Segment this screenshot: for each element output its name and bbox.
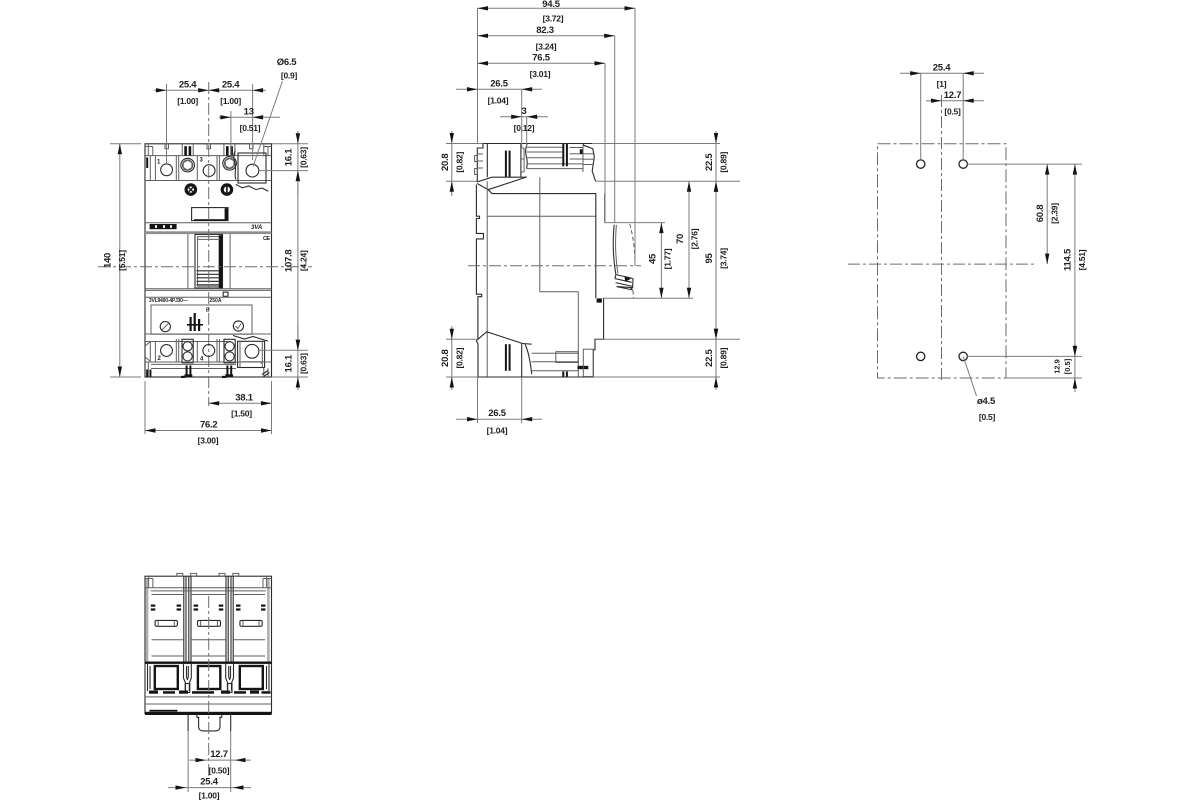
front view top cap band <box>145 144 272 156</box>
bottom view top tabs <box>177 573 239 576</box>
side view centerline <box>468 265 641 267</box>
dim 25.4 [1.00] left span <box>154 80 222 164</box>
small square indicator <box>223 292 228 296</box>
bottom view centerline <box>208 596 210 776</box>
svg-text:25.4: 25.4 <box>200 777 218 788</box>
svg-text:[0.82]: [0.82] <box>455 152 465 173</box>
svg-text:76.5: 76.5 <box>532 53 550 64</box>
terminal hole 3 <box>203 165 215 177</box>
mounting hole top right <box>959 160 967 168</box>
svg-text:45: 45 <box>648 253 659 264</box>
svg-text:114.5: 114.5 <box>1063 248 1074 271</box>
dim 26.5 [1.04] top <box>456 79 542 149</box>
handle frame <box>188 234 230 289</box>
svg-text:12.7: 12.7 <box>944 90 962 101</box>
lower terminal hole 2 <box>161 345 173 357</box>
svg-text:[0.63]: [0.63] <box>299 353 309 374</box>
lower clamp module left <box>182 339 193 363</box>
pole module field lines <box>151 591 266 656</box>
label band with logo and 3VA <box>145 223 272 231</box>
svg-text:12.7: 12.7 <box>210 749 228 760</box>
svg-text:60.8: 60.8 <box>1035 205 1046 223</box>
svg-text:38.1: 38.1 <box>235 393 253 404</box>
lines below handle <box>145 289 272 291</box>
toggle travel dashed arc <box>630 224 635 298</box>
cover screw left (slotted) <box>185 183 198 196</box>
right extension lines <box>258 144 308 377</box>
dim 107.8 [4.24] right <box>284 171 309 351</box>
lower terminal hole 4 <box>203 345 215 357</box>
drilling plan outline (phantom) <box>878 144 1007 378</box>
svg-text:20.8: 20.8 <box>440 154 451 172</box>
svg-text:[1]: [1] <box>937 79 947 89</box>
type text row <box>149 298 222 304</box>
svg-text:[4.51]: [4.51] <box>1077 249 1087 270</box>
svg-text:[4.24]: [4.24] <box>299 250 309 271</box>
svg-text:[1.04]: [1.04] <box>487 426 508 436</box>
broken-out terminal 5 with tear outline <box>234 151 268 192</box>
svg-text:CE: CE <box>263 236 270 242</box>
svg-text:[0.12]: [0.12] <box>514 123 535 133</box>
toggle handle side profile <box>613 225 633 290</box>
svg-text:12.9: 12.9 <box>1053 359 1062 374</box>
dim 20.8 [0.82] bottom left <box>440 326 465 390</box>
svg-text:[0.51]: [0.51] <box>240 123 261 133</box>
svg-text:94.5: 94.5 <box>542 0 560 10</box>
clip marks <box>151 605 266 611</box>
svg-text:[0.50]: [0.50] <box>209 766 230 776</box>
side view top cap block <box>487 144 525 178</box>
lower terminal row <box>145 334 272 362</box>
svg-text:107.8: 107.8 <box>284 250 295 273</box>
rating plate <box>151 305 252 334</box>
pole barrier lines left <box>184 576 191 661</box>
svg-text:25.4: 25.4 <box>933 62 951 73</box>
dim 70 [2.76] <box>675 181 700 298</box>
svg-text:140: 140 <box>103 253 114 268</box>
svg-text:[0.63]: [0.63] <box>299 147 309 168</box>
svg-text:22.5: 22.5 <box>704 348 715 366</box>
front view top terminal row <box>145 156 272 181</box>
svg-text:26.5: 26.5 <box>488 408 506 419</box>
svg-text:3: 3 <box>200 158 204 164</box>
dim 26.5 [1.04] bottom <box>456 377 542 436</box>
svg-text:[1.00]: [1.00] <box>220 96 241 106</box>
dim 76.5 [3.01] <box>478 53 606 223</box>
svg-text:[3.01]: [3.01] <box>530 69 551 79</box>
svg-text:[0.5]: [0.5] <box>1063 358 1072 374</box>
svg-text:ø4.5: ø4.5 <box>977 396 996 407</box>
terminal screw 4 (hex head) <box>223 157 237 171</box>
dim 38.1 [1.50] <box>209 381 272 434</box>
svg-text:70: 70 <box>675 234 686 244</box>
lower clamp module right <box>224 339 235 363</box>
side view main body lines <box>487 177 604 377</box>
label diameter 4.5 [0.5] with leader <box>963 356 996 422</box>
svg-text:25.4: 25.4 <box>222 80 240 91</box>
svg-text:[1.50]: [1.50] <box>231 409 252 419</box>
svg-text:[3.72]: [3.72] <box>543 14 564 24</box>
svg-text:76.2: 76.2 <box>200 420 218 431</box>
svg-text:22.5: 22.5 <box>704 153 715 171</box>
dim 12.9 [0.5] <box>1053 344 1078 392</box>
terminal zone <box>145 662 272 694</box>
base plate lines <box>145 697 272 715</box>
svg-text:[0.5]: [0.5] <box>979 412 996 422</box>
side view bottom edge with extensions <box>446 376 720 378</box>
side view top-left vee joint <box>477 177 527 194</box>
svg-text:95: 95 <box>704 253 715 264</box>
dim 25.4 [1.00] bottom view <box>168 777 251 800</box>
bottom cap band <box>145 362 272 378</box>
front centerline vertical <box>208 82 210 406</box>
svg-text:2: 2 <box>158 356 162 362</box>
svg-text:[1.04]: [1.04] <box>488 96 509 106</box>
dim 76.2 [3.00] <box>145 381 272 446</box>
mounting tab <box>188 715 231 731</box>
svg-text:16.1: 16.1 <box>284 354 295 372</box>
side view back profile <box>475 144 484 378</box>
svg-text:82.3: 82.3 <box>536 25 554 36</box>
bottom view outline <box>145 576 272 713</box>
svg-text:[0.5]: [0.5] <box>944 107 961 117</box>
dim 20.8 [0.82] top left <box>440 131 465 196</box>
svg-text:[1.00]: [1.00] <box>177 96 198 106</box>
svg-text:[0.82]: [0.82] <box>455 347 465 368</box>
svg-text:[3.74]: [3.74] <box>719 248 729 269</box>
dim 45 [1.77] <box>648 223 673 299</box>
drilling plan centerline vertical <box>941 95 943 381</box>
side view bottom cap block <box>478 332 593 377</box>
bottom view top band <box>145 576 272 588</box>
hole row extension lines <box>967 164 1082 378</box>
dim 25.4 [1] plan <box>900 62 984 159</box>
dim 13 [0.51] <box>219 107 280 159</box>
svg-text:[2.76]: [2.76] <box>690 228 700 249</box>
right extension lines side view <box>594 181 740 339</box>
svg-text:13: 13 <box>244 107 254 118</box>
dim 94.5 [3.72] <box>478 0 636 266</box>
cover screw right (slotted) <box>221 183 234 196</box>
mounting hole bottom left <box>917 352 925 360</box>
dim 16.1 [0.63] bottom right <box>284 325 309 390</box>
bottom view extension lines <box>188 731 231 792</box>
drilling plan centerline horizontal <box>848 263 1035 265</box>
broken-out lower terminal 6 <box>233 336 268 368</box>
svg-text:[3.24]: [3.24] <box>536 42 557 52</box>
svg-text:26.5: 26.5 <box>490 79 508 90</box>
dim 114.5 [4.51] <box>1063 164 1088 356</box>
svg-text:[0.89]: [0.89] <box>719 152 729 173</box>
front view body outline <box>145 144 272 377</box>
dim 22.5 [0.89] bottom right <box>704 326 729 390</box>
dim 22.5 [0.89] top right <box>704 131 729 196</box>
side view top terminal stack <box>526 144 596 182</box>
dim 12.7 [0.5] plan <box>926 90 984 117</box>
svg-text:[3.00]: [3.00] <box>198 436 219 446</box>
line above type text row <box>145 296 272 298</box>
svg-text:20.8: 20.8 <box>440 349 451 367</box>
svg-text:3VL9400-4PJ30––: 3VL9400-4PJ30–– <box>149 298 188 304</box>
dim 3 [0.12] <box>500 106 548 148</box>
svg-text:1: 1 <box>157 160 161 166</box>
dim 95 [3.74] right <box>704 181 729 339</box>
side view top edge with extension <box>446 143 720 145</box>
label diameter 6.5 [0.9] with leader <box>253 57 298 167</box>
svg-text:3VA: 3VA <box>251 225 262 231</box>
terminal hole 1 <box>161 164 173 176</box>
dim 25.4 [1.00] right span <box>198 80 266 161</box>
svg-text:16.1: 16.1 <box>284 148 295 166</box>
toggle handle <box>195 234 223 288</box>
mounting hole top left <box>917 160 925 168</box>
svg-text:[1.00]: [1.00] <box>199 791 220 800</box>
front centerline horizontal <box>98 266 312 268</box>
nameplate window <box>192 208 228 221</box>
svg-text:25.4: 25.4 <box>179 80 197 91</box>
svg-text:250A: 250A <box>210 298 222 304</box>
left extension lines side view <box>446 181 478 339</box>
dim 16.1 [0.63] top right <box>284 131 309 196</box>
pole slots <box>155 620 262 626</box>
pole barrier lines right <box>226 576 233 661</box>
terminal screw 2 (hex head) <box>181 158 195 172</box>
side view lower front profile <box>593 298 693 377</box>
svg-text:Ø6.5: Ø6.5 <box>277 57 298 68</box>
svg-text:[1.77]: [1.77] <box>663 248 673 269</box>
side view handle escutcheon edge <box>605 222 665 224</box>
dim 60.8 [2.39] <box>1035 164 1060 264</box>
dim 12.7 [0.50] bottom view <box>189 749 251 776</box>
svg-text:[0.9]: [0.9] <box>281 71 298 81</box>
svg-text:[2.39]: [2.39] <box>1050 203 1060 224</box>
svg-text:[0.89]: [0.89] <box>719 347 729 368</box>
svg-text:B: B <box>206 308 210 314</box>
dim 82.3 [3.24] <box>478 25 615 223</box>
svg-text:3: 3 <box>521 106 526 117</box>
mounting hole bottom right <box>959 352 967 360</box>
dim 140 [5.51] left <box>103 144 142 377</box>
grey separator band <box>145 231 272 234</box>
svg-text:[5.51]: [5.51] <box>117 250 127 271</box>
